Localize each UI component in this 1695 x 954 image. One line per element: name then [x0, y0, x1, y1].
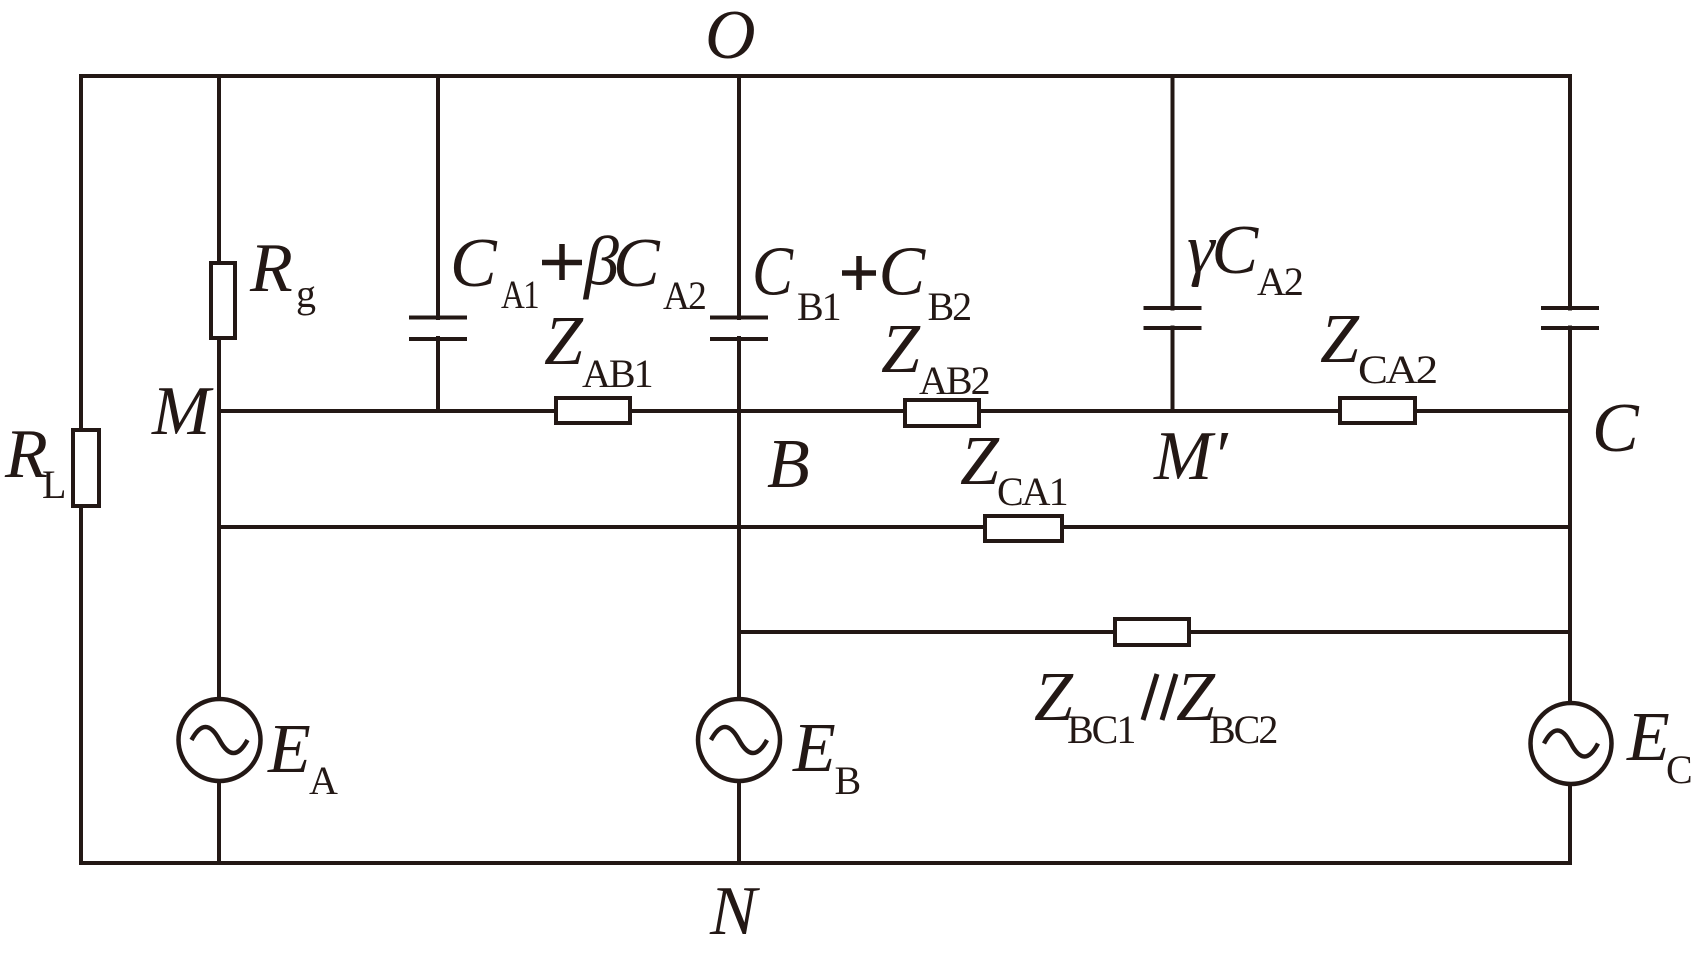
- wire gammaCA2 capacitor stub: [1171, 76, 1175, 411]
- wire CA1 capacitor stub: [436, 76, 440, 411]
- svg-text:C: C: [613, 225, 661, 302]
- source EC: [1531, 703, 1612, 784]
- capacitor CA1+bCA2: [407, 318, 469, 340]
- label RL: [4, 416, 65, 507]
- svg-text:BC1: BC1: [1067, 707, 1134, 752]
- label ZCA2: [1320, 301, 1436, 392]
- capacitor CB1+CB2: [708, 318, 770, 340]
- svg-text:B: B: [835, 758, 860, 803]
- wire top rail O: [79, 74, 1572, 78]
- svg-text:CA2: CA2: [1358, 347, 1436, 392]
- label Rg: [249, 230, 316, 316]
- label EB: [792, 710, 860, 803]
- resistor ZAB2: [905, 400, 979, 426]
- svg-text:E: E: [1626, 699, 1670, 776]
- svg-text:Z: Z: [544, 303, 584, 380]
- capacitor gammaCA2: [1141, 308, 1203, 328]
- label EC: [1626, 699, 1691, 792]
- svg-text:R: R: [249, 230, 293, 307]
- svg-text:A2: A2: [1257, 259, 1302, 304]
- source EB: [698, 699, 780, 781]
- wire ZCA1 horizontal: [219, 525, 1570, 529]
- label gammaCA2: [1187, 211, 1302, 304]
- resistor Rg: [211, 263, 235, 338]
- wire bottom rail N: [79, 861, 1572, 865]
- svg-text:A2: A2: [663, 273, 705, 318]
- svg-text:Z: Z: [881, 311, 921, 388]
- wire left rail: [79, 74, 83, 865]
- svg-text:AB1: AB1: [582, 351, 652, 396]
- svg-text:N: N: [709, 873, 760, 950]
- label ZAB1: [544, 303, 652, 396]
- svg-text:g: g: [296, 271, 316, 316]
- capacitor right: [1539, 308, 1601, 328]
- wire phase-B vertical: [737, 76, 741, 863]
- svg-text:E: E: [792, 710, 836, 787]
- resistor ZCA2: [1340, 398, 1415, 423]
- wire phase-A vertical: [217, 76, 221, 863]
- label CA1+betaCA2: [450, 224, 705, 319]
- svg-text:AB2: AB2: [919, 358, 989, 403]
- label ZBC1//ZBC2: [1034, 659, 1276, 752]
- wire right rail: [1568, 74, 1572, 865]
- svg-text:A: A: [309, 758, 338, 803]
- svg-text:C: C: [450, 225, 498, 302]
- svg-text:Z: Z: [1320, 301, 1360, 378]
- wire ZBC horizontal: [739, 630, 1570, 634]
- label EA: [267, 711, 338, 803]
- svg-text:M′: M′: [1153, 418, 1229, 495]
- wire M to C horizontal: [219, 409, 1570, 413]
- resistor ZCA1: [985, 516, 1062, 541]
- svg-text:A1: A1: [501, 272, 538, 317]
- svg-text:B2: B2: [928, 284, 971, 329]
- label ZAB2: [881, 311, 989, 403]
- svg-text:E: E: [267, 711, 311, 788]
- resistor ZBC1//ZBC2: [1115, 619, 1189, 645]
- label ZCA1: [960, 423, 1067, 514]
- svg-text:C: C: [1592, 390, 1640, 467]
- svg-text:L: L: [42, 462, 65, 507]
- svg-text:C: C: [879, 234, 927, 311]
- svg-text:O: O: [705, 0, 756, 74]
- source EA: [179, 699, 261, 781]
- svg-text:M: M: [151, 373, 214, 450]
- label CB1+CB2: [752, 234, 970, 330]
- svg-text:C: C: [1666, 747, 1691, 792]
- svg-text:B: B: [767, 426, 810, 503]
- svg-text:Z: Z: [960, 423, 1000, 500]
- svg-text:B1: B1: [797, 284, 840, 329]
- resistor RL: [73, 430, 99, 506]
- svg-text:BC2: BC2: [1209, 707, 1276, 752]
- svg-text:C: C: [752, 234, 794, 311]
- svg-text:CA1: CA1: [997, 469, 1067, 514]
- resistor ZAB1: [556, 398, 630, 423]
- svg-text:C: C: [1212, 212, 1260, 289]
